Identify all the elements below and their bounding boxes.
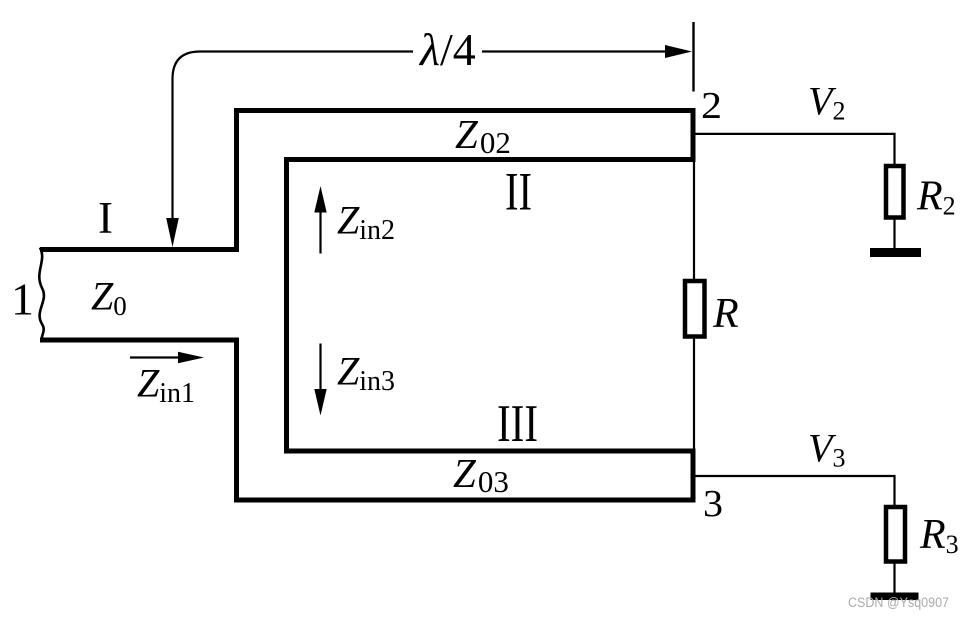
svg-text:λ/4: λ/4 — [418, 24, 476, 75]
ground (port 2 load) — [870, 248, 921, 257]
svg-text:3: 3 — [703, 483, 723, 525]
svg-text:II: II — [505, 162, 532, 222]
wire node3 to V3/R3 — [695, 476, 895, 506]
wire R2 to ground — [893, 219, 895, 249]
svg-text:CSDN @Ysq0907: CSDN @Ysq0907 — [848, 595, 949, 610]
resistor R2 — [886, 166, 904, 218]
wire inner contour (branch II bottom edge, inner vertical, branch III top edge) — [287, 160, 695, 452]
arrow Zin3 (down) — [319, 344, 321, 391]
wire R down to node3 — [693, 338, 695, 451]
wire right end bar of branch III (node 3) — [691, 449, 696, 503]
svg-text:1: 1 — [11, 274, 34, 325]
port 1 break (wavy left edge of input line) — [39, 248, 44, 343]
resistor R — [685, 281, 705, 337]
dimension end tick — [692, 22, 694, 92]
ground (port 3 load) — [871, 593, 919, 601]
dimension line right segment with right arrow — [482, 50, 667, 52]
wire right end bar of branch II (node 2) — [691, 108, 696, 162]
arrow Zin2 (up) — [319, 212, 321, 254]
svg-text:2: 2 — [701, 85, 722, 127]
wire outer top contour (input top edge, left vertical, branch II top edge) — [40, 111, 694, 250]
wire node2 to V2/R2 — [694, 134, 895, 165]
arrow Zin1 — [130, 356, 180, 358]
svg-text:III: III — [497, 395, 538, 453]
wire R3 to ground — [893, 561, 895, 593]
svg-text:I: I — [98, 193, 113, 243]
dimension line lambda/4 with left arc and down arrow — [173, 52, 414, 221]
wire node2 down to R — [693, 162, 695, 281]
resistor R3 — [886, 507, 905, 562]
wire outer bottom contour (input bottom edge, left vertical, branch III bottom edge) — [40, 340, 694, 500]
svg-text:R: R — [712, 291, 739, 337]
